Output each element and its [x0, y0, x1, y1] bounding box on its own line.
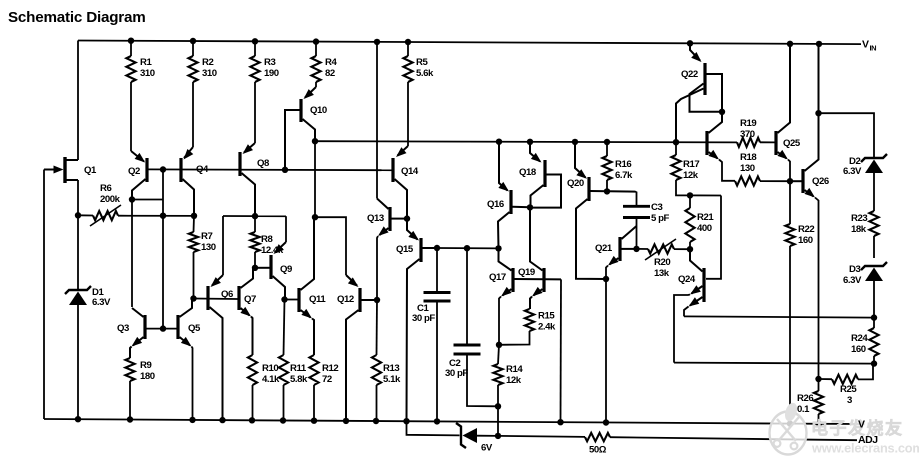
resistor R18	[735, 176, 760, 185]
transistor Q13	[377, 199, 407, 237]
svg-text:Q3: Q3	[117, 323, 129, 334]
wire Q1 source to node A	[77, 180, 79, 215]
wire VOUT bottom bus	[44, 419, 857, 424]
wire Q21 emitter to node	[606, 266, 608, 280]
resistor R12	[309, 319, 318, 421]
svg-text:5 pF: 5 pF	[651, 213, 670, 224]
wire R19 to Q25 base	[760, 141, 775, 143]
svg-text:Q25: Q25	[783, 138, 801, 149]
wire Q9 collector to Q11 base	[285, 299, 298, 301]
transistor Q20	[575, 142, 637, 279]
wire Q1 drain to rail	[77, 41, 79, 161]
transistor Q1	[44, 157, 78, 183]
svg-text:R4: R4	[325, 57, 337, 68]
label R18	[740, 152, 757, 174]
transistor Q24	[689, 249, 705, 306]
resistor R24	[869, 318, 878, 364]
svg-text:4.1k: 4.1k	[262, 374, 280, 385]
wire D2 branch	[819, 113, 875, 157]
svg-text:R13: R13	[383, 363, 399, 374]
wire Q2 collector link	[132, 199, 163, 201]
node VIN rail junctions	[128, 38, 822, 48]
svg-text:310: 310	[202, 68, 217, 79]
node R16 bottom	[604, 188, 610, 194]
label R21	[697, 212, 714, 234]
resistor R6	[90, 205, 121, 226]
svg-text:R14: R14	[506, 364, 523, 375]
svg-text:6.3V: 6.3V	[843, 275, 862, 286]
transistor Q25	[760, 44, 790, 160]
wire Q13 emitter to Q12 base	[377, 236, 378, 300]
node R20 R21 Q24 collector	[687, 246, 693, 252]
transistor Q8	[240, 143, 255, 216]
wire Q26 emitter column	[815, 198, 819, 380]
node R7 bottom	[190, 295, 196, 301]
svg-text:R21: R21	[697, 212, 714, 223]
transistor Q22	[676, 43, 722, 142]
node segment B junction	[252, 213, 258, 219]
svg-text:Q15: Q15	[396, 244, 414, 255]
svg-text:Q22: Q22	[681, 69, 698, 80]
wire Q5 emitter to bus	[192, 347, 193, 420]
resistor R8	[250, 216, 259, 268]
svg-text:Q12: Q12	[337, 294, 354, 305]
transistor Q3	[132, 308, 146, 347]
node R17 R21 Q24 base	[687, 192, 693, 198]
resistor R1	[126, 41, 135, 82]
label R24	[851, 333, 868, 355]
resistor R4	[311, 42, 320, 82]
wire Q1 gate column to bus	[43, 170, 45, 420]
wire Q8 collector segment	[223, 215, 286, 217]
svg-text:Schematic Diagram: Schematic Diagram	[8, 9, 146, 26]
wire Q24 emitter2 to line	[684, 307, 689, 317]
node internal rail junctions	[312, 138, 679, 145]
svg-text:R18: R18	[740, 152, 757, 163]
wire Q17 emitter column	[499, 297, 501, 345]
node Q21 base C3	[633, 246, 639, 252]
svg-text:18k: 18k	[851, 224, 867, 235]
svg-text:V: V	[862, 39, 869, 51]
label R17	[683, 159, 699, 181]
svg-text:Q9: Q9	[280, 264, 292, 275]
label R10	[262, 363, 280, 385]
svg-text:82: 82	[325, 68, 335, 79]
label R8	[261, 234, 284, 256]
node Q17 emitter R15 R14	[496, 342, 502, 348]
label R20	[654, 257, 670, 279]
diode D3	[861, 262, 887, 270]
wire node A horizontal	[78, 214, 93, 216]
svg-text:310: 310	[140, 68, 155, 79]
node Q9 collector	[281, 296, 287, 302]
svg-text:R17: R17	[683, 159, 699, 170]
resistor R20	[637, 239, 691, 260]
svg-text:12k: 12k	[506, 375, 522, 386]
svg-text:13k: 13k	[654, 268, 670, 279]
svg-text:0.1: 0.1	[797, 404, 810, 415]
node Q3 Q5 base	[160, 325, 166, 331]
svg-text:Q21: Q21	[595, 243, 613, 254]
transistor Q12	[346, 275, 377, 421]
label D3	[849, 264, 860, 275]
svg-text:R10: R10	[262, 363, 278, 374]
svg-text:ADJ: ADJ	[858, 434, 878, 446]
resistor R9	[125, 347, 134, 420]
svg-text:Q14: Q14	[401, 166, 419, 177]
wire Q10 collector node column	[314, 141, 316, 217]
wire Q2 base to Q3 base column	[162, 170, 164, 329]
node Q2 collector	[129, 196, 135, 202]
svg-text:160: 160	[851, 344, 866, 355]
svg-text:Q17: Q17	[489, 272, 506, 283]
node Q26 collector D2 branch	[815, 110, 821, 116]
svg-text:R22: R22	[798, 224, 814, 235]
svg-text:R26: R26	[797, 393, 813, 404]
label C3	[651, 202, 662, 213]
node Q22 base collector	[719, 109, 725, 115]
svg-text:Q20: Q20	[567, 178, 584, 189]
wire Q24 emitter1 to line	[674, 295, 690, 363]
wire R1 to Q2 emitter	[130, 82, 132, 151]
label R6	[100, 183, 121, 205]
svg-text:R8: R8	[261, 234, 273, 245]
wire node to bus	[605, 279, 607, 423]
svg-text:72: 72	[322, 374, 332, 385]
capacitor C2	[454, 248, 499, 406]
resistor R7	[189, 216, 198, 299]
svg-text:R3: R3	[264, 57, 275, 68]
svg-text:Q5: Q5	[188, 323, 201, 334]
svg-text:V: V	[858, 419, 865, 431]
wire Q2 collector to Q3 collector	[131, 200, 133, 308]
transistor Q14	[393, 146, 408, 219]
wire Q24 base column	[706, 196, 721, 279]
transistor Q21	[608, 226, 637, 266]
node R8 bottom	[252, 265, 258, 271]
resistor R2	[188, 41, 197, 82]
wire Q25 emitter to node	[788, 160, 790, 182]
svg-text:160: 160	[798, 235, 813, 246]
node Q13 base Q14 collector	[404, 215, 410, 221]
svg-text:R7: R7	[201, 231, 212, 242]
svg-text:IN: IN	[870, 44, 877, 53]
node Q18 collector	[527, 204, 533, 210]
resistor R3	[250, 41, 259, 82]
svg-text:6.7k: 6.7k	[615, 170, 633, 181]
svg-text:R24: R24	[851, 333, 868, 344]
svg-text:Q13: Q13	[367, 213, 384, 224]
wire node to Q12 emitter	[315, 217, 346, 275]
node Q26 emitter R25 R26	[815, 376, 821, 382]
svg-text:130: 130	[740, 163, 755, 174]
transistor Q6	[208, 275, 223, 420]
label R4	[325, 57, 337, 79]
node Q20 collector Q21 emitter	[603, 276, 609, 282]
resistor R22	[785, 181, 794, 423]
node D3 R24 line317	[871, 314, 877, 320]
resistor R26	[814, 379, 823, 424]
node Q25 emitter R18 R22 Q26 base	[787, 178, 793, 184]
svg-text:50Ω: 50Ω	[589, 445, 607, 456]
wire line 317	[684, 316, 874, 317]
wire line 363	[674, 363, 874, 364]
label R3	[264, 57, 279, 79]
svg-text:6.3V: 6.3V	[92, 297, 111, 308]
svg-text:6.3V: 6.3V	[843, 166, 862, 177]
watermark text	[811, 418, 919, 456]
svg-text:6V: 6V	[481, 443, 493, 454]
label C2	[449, 358, 460, 369]
transistor Q16	[498, 142, 530, 249]
transistor Q9	[257, 242, 287, 300]
svg-text:R19: R19	[740, 118, 756, 129]
transistor Q2	[131, 151, 147, 200]
node A junctions	[75, 212, 197, 219]
wire Q3 Q5 base line	[147, 328, 177, 330]
transistor Q5	[178, 299, 194, 347]
wire R3 to Q8 emitter	[254, 82, 256, 143]
label R23	[851, 213, 867, 235]
svg-text:C3: C3	[651, 202, 662, 213]
svg-text:R9: R9	[140, 360, 151, 371]
transistor Q11	[299, 217, 314, 318]
wire Q15 collector to ADJ line	[407, 421, 460, 435]
label R5	[416, 57, 434, 79]
label R9	[140, 360, 155, 382]
resistor R21	[685, 195, 694, 249]
svg-text:R16: R16	[615, 159, 631, 170]
wire Q23 emitter to R18	[719, 160, 735, 181]
svg-text:Q16: Q16	[487, 199, 504, 210]
label R14	[506, 364, 523, 386]
svg-text:R2: R2	[202, 57, 213, 68]
svg-text:Q11: Q11	[309, 294, 326, 305]
svg-text:130: 130	[201, 242, 216, 253]
label R12	[322, 363, 338, 385]
svg-text:190: 190	[264, 68, 279, 79]
label C1	[417, 303, 429, 314]
wire Q9 emitter corner	[285, 216, 287, 242]
label D2	[849, 156, 860, 167]
label R2	[202, 57, 217, 79]
wire Q6 Q7 base line	[194, 298, 238, 301]
node Q12 base	[374, 297, 380, 303]
transistor Q7	[239, 268, 255, 317]
svg-text:R1: R1	[140, 57, 152, 68]
svg-text:R5: R5	[416, 57, 428, 68]
label R1	[140, 57, 155, 79]
transistor Q10	[285, 87, 316, 170]
svg-text:R6: R6	[100, 183, 111, 194]
wire 50ohm to ADJ	[610, 437, 857, 440]
label R15	[538, 311, 556, 333]
svg-text:370: 370	[740, 129, 755, 140]
wire D1 to bus	[77, 304, 79, 419]
svg-text:R11: R11	[290, 363, 307, 374]
svg-text:D3: D3	[849, 264, 860, 275]
svg-text:Q24: Q24	[678, 274, 696, 285]
capacitor C3	[623, 192, 650, 249]
transistor Q15	[407, 219, 438, 422]
label R22	[798, 224, 814, 246]
svg-text:Q7: Q7	[244, 294, 256, 305]
watermark logo	[770, 401, 807, 454]
wire R18 to Q25 emitter node	[760, 180, 790, 182]
wire Q6 emitter column	[222, 216, 224, 275]
resistor R19	[737, 138, 760, 147]
svg-text:Q19: Q19	[518, 267, 535, 278]
resistor R16	[602, 142, 611, 192]
transistor Q23	[707, 112, 722, 160]
svg-text:30 pF: 30 pF	[445, 368, 468, 379]
capacitor C1	[424, 248, 451, 421]
wire D3 to node	[873, 280, 875, 318]
svg-text:Q10: Q10	[310, 105, 327, 116]
svg-text:Q8: Q8	[257, 158, 270, 169]
wire ADJ line to 50ohm	[498, 436, 585, 437]
resistor R 50ohm	[585, 433, 610, 441]
svg-text:R23: R23	[851, 213, 867, 224]
resistor R13	[372, 300, 381, 421]
svg-text:5.1k: 5.1k	[383, 374, 401, 385]
node base line junctions	[160, 166, 288, 173]
resistor R23	[869, 172, 878, 258]
wire Q15 base line	[437, 247, 499, 249]
transistor Q26	[790, 44, 819, 198]
svg-text:Q2: Q2	[128, 166, 140, 177]
label R11	[290, 363, 308, 385]
diode D2	[861, 154, 887, 162]
transistor Q4	[181, 147, 194, 216]
label R7	[201, 231, 216, 253]
resistor R17	[671, 142, 721, 195]
wire node A horizontal cont	[118, 215, 196, 217]
label R25	[840, 384, 857, 395]
label R26	[797, 393, 813, 415]
resistor R14	[493, 345, 502, 436]
svg-text:2.4k: 2.4k	[538, 322, 556, 333]
node ADJ R14	[495, 433, 501, 439]
svg-text:12k: 12k	[683, 170, 699, 181]
node R24 bottom	[871, 360, 877, 366]
svg-text:5.8k: 5.8k	[290, 374, 308, 385]
svg-text:3: 3	[847, 395, 852, 406]
wire R5 to Q14 emitter	[407, 82, 409, 146]
wire Q13 collector to rail	[376, 42, 378, 199]
svg-text:R20: R20	[654, 257, 670, 268]
resistor R11	[279, 300, 288, 421]
wire R2 to Q4 emitter	[192, 82, 194, 147]
node VOUT bus junctions	[75, 416, 822, 427]
wire common base line Q2 Q4 Q8 Q14	[149, 168, 394, 171]
svg-text:Q18: Q18	[519, 167, 537, 178]
svg-text:Q1: Q1	[84, 165, 97, 176]
node Q10 collector lower	[312, 214, 318, 220]
svg-text:R12: R12	[322, 363, 338, 374]
svg-text:5.6k: 5.6k	[416, 68, 434, 79]
svg-text:Q26: Q26	[812, 176, 829, 187]
svg-text:30 pF: 30 pF	[412, 313, 435, 324]
transistor Q18	[530, 142, 561, 208]
wire Q17 Q19 base to bus	[560, 279, 563, 422]
svg-text:R25: R25	[840, 384, 857, 395]
node R14 C2	[495, 403, 501, 409]
wire VIN top rail	[78, 41, 861, 45]
transistor Q17	[499, 248, 562, 296]
diode D1	[65, 286, 91, 294]
wire R4 to Q10 emitter	[315, 82, 317, 87]
svg-text:R15: R15	[538, 311, 555, 322]
label R13	[383, 363, 401, 385]
node 248 line junctions	[434, 245, 502, 252]
svg-text:Q4: Q4	[196, 164, 209, 175]
resistor R10	[248, 317, 257, 421]
wire internal supply line (Q10 collector rail)	[315, 141, 737, 142]
svg-text:200k: 200k	[100, 194, 121, 205]
label VIN	[862, 39, 876, 53]
label R16	[615, 159, 633, 181]
label R19	[740, 118, 756, 140]
resistor R25	[819, 364, 874, 384]
resistor R5	[403, 42, 412, 82]
diode Dz 6V	[456, 423, 498, 448]
wire node A to D1	[77, 215, 79, 290]
resistor R15	[499, 297, 534, 345]
svg-text:180: 180	[140, 371, 155, 382]
svg-text:400: 400	[697, 223, 712, 234]
transistor Q19	[530, 207, 544, 296]
label D1	[92, 287, 111, 308]
